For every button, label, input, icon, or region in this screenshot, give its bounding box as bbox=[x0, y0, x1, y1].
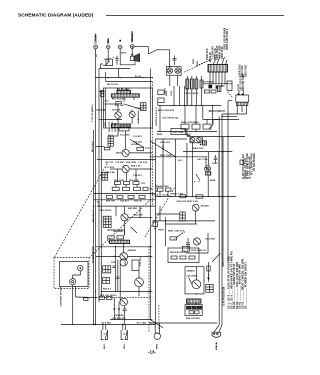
wire bus y193.6 bbox=[94, 193, 156, 195]
resistor R23 bbox=[104, 147, 110, 150]
junction Q6 bbox=[114, 256, 115, 257]
wire in output block bbox=[189, 278, 193, 285]
parts chain right of output block bbox=[208, 262, 210, 282]
resistor R15 bbox=[116, 102, 122, 104]
wire v208.7 bbox=[208, 152, 210, 166]
wire jack leads bbox=[154, 323, 156, 334]
capacitor C610 bbox=[218, 86, 221, 92]
dashed diagonal to motor bbox=[55, 162, 109, 257]
resistor row E bbox=[99, 297, 105, 300]
svg-text:R58 C47 R59: R58 C47 R59 bbox=[186, 317, 201, 320]
capacitor C42 bbox=[123, 306, 127, 316]
osc caps bbox=[214, 155, 217, 163]
svg-text:S1-1 (W): S1-1 (W) bbox=[137, 323, 146, 325]
terminal J2 bbox=[106, 45, 110, 49]
small part near motor bbox=[84, 298, 89, 301]
label row y160 bbox=[106, 162, 149, 164]
svg-text:REC/PB SW S1-2: REC/PB SW S1-2 bbox=[170, 252, 189, 254]
box row mid bbox=[181, 124, 189, 129]
wire motor wiring bbox=[73, 271, 81, 279]
right rail x155.5 bbox=[155, 139, 157, 325]
jack box bbox=[190, 137, 203, 143]
box EQ2 bbox=[171, 129, 186, 135]
wire J4 lead bbox=[131, 47, 133, 49]
junction dots extra bbox=[108, 77, 109, 78]
wire q6 top bbox=[123, 244, 125, 253]
diode D12 bbox=[118, 308, 121, 313]
svg-text:REC 60mV: REC 60mV bbox=[93, 210, 95, 222]
dashed vertical x149.5 low bbox=[148, 246, 150, 333]
label col right of IC bbox=[241, 74, 246, 91]
svg-text:S1-06: S1-06 bbox=[162, 195, 169, 197]
IC U601 bbox=[208, 65, 228, 73]
svg-text:R22 56K: R22 56K bbox=[115, 122, 117, 131]
mid extra wires bbox=[173, 86, 175, 106]
svg-text:R616 C616 472: R616 C616 472 bbox=[158, 109, 175, 112]
connector grid CN4 bbox=[103, 216, 111, 227]
svg-text:C613: C613 bbox=[171, 90, 173, 96]
svg-text:C604 473: C604 473 bbox=[211, 46, 214, 57]
transformer T601 bbox=[236, 95, 249, 105]
wire bus y146.5 bbox=[96, 146, 105, 148]
osc coil box bbox=[206, 172, 211, 175]
label cols right of IC upper bbox=[240, 63, 248, 77]
governor G1 bbox=[70, 279, 76, 285]
svg-text:S2-1: S2-1 bbox=[178, 160, 184, 162]
svg-text:R604 1K: R604 1K bbox=[209, 52, 212, 62]
lamp box bbox=[166, 67, 181, 76]
wire block base bbox=[104, 119, 122, 121]
svg-text:UM-1: UM-1 bbox=[104, 343, 106, 349]
switch S2-2 bbox=[106, 61, 110, 65]
svg-text:2SC1383: 2SC1383 bbox=[205, 239, 215, 241]
diagonal wire Q1-Q2 bbox=[124, 104, 142, 110]
svg-text:OSC COIL: OSC COIL bbox=[197, 159, 209, 161]
transistor Q10 bbox=[192, 280, 201, 289]
wire bus y139 bbox=[156, 138, 187, 140]
svg-text:2SC458: 2SC458 bbox=[112, 109, 121, 112]
resistor comb RN4 bbox=[110, 240, 130, 243]
svg-text:PB 0.5mV: PB 0.5mV bbox=[92, 141, 94, 152]
resistor comb RN2 bbox=[111, 94, 139, 97]
wire J1 lead / left rail bbox=[95, 49, 97, 325]
resistor comb RN1 bbox=[117, 90, 130, 93]
transistor Q4 bbox=[122, 165, 129, 172]
capacitor CS1 bbox=[113, 266, 116, 267]
junction motor bus bbox=[72, 324, 73, 325]
wire rail stub 1 bbox=[99, 91, 105, 93]
transistor Q6 bbox=[120, 253, 128, 261]
svg-text:R607 2.2K 1/4W S: R607 2.2K 1/4W S bbox=[226, 28, 229, 49]
svg-text:T601: T601 bbox=[186, 134, 192, 136]
svg-text:2SB324: 2SB324 bbox=[128, 249, 137, 252]
svg-text:C13 473: C13 473 bbox=[133, 135, 142, 138]
resistor row B bbox=[112, 187, 119, 190]
bus y199.8 bbox=[94, 199, 156, 201]
svg-text:S3 ..................... POWER: S3 ..................... POWER SW (2P2T) bbox=[243, 262, 247, 309]
wire verticals sec5 bbox=[115, 246, 117, 292]
svg-text:2SC945: 2SC945 bbox=[201, 205, 210, 208]
svg-text:C33 100: C33 100 bbox=[140, 257, 142, 266]
jack circle B bbox=[197, 138, 202, 143]
resistor grid RG2 bbox=[103, 278, 110, 284]
capacitor C1 (+ marks) bbox=[113, 56, 119, 65]
wire corner bbox=[101, 64, 104, 69]
svg-text:R26 6.8K: R26 6.8K bbox=[105, 172, 115, 174]
resistor RB2 bbox=[180, 195, 186, 198]
resistor comb RN3 bbox=[111, 124, 130, 127]
wire bottom v1 bbox=[113, 298, 115, 308]
wire bias top bbox=[187, 128, 191, 136]
IC pins bbox=[209, 72, 211, 84]
wire rail x223 bbox=[222, 137, 224, 267]
transistor Q6b bbox=[120, 259, 127, 266]
svg-text:MTG: MTG bbox=[121, 53, 126, 55]
connector grid CN3 bbox=[102, 172, 108, 180]
wire h y233 bbox=[166, 223, 197, 225]
wire h y214 bbox=[156, 213, 180, 215]
svg-text:C15 30P: C15 30P bbox=[115, 162, 124, 164]
wire Q4 left bbox=[110, 168, 122, 170]
capacitor CM5 bbox=[186, 238, 190, 250]
capacitor CE1 bbox=[186, 79, 189, 89]
diagonal wire sec2 bbox=[130, 140, 144, 148]
label mark J4 bbox=[132, 34, 133, 42]
wire Q10 up bbox=[195, 267, 197, 280]
svg-text:R601: R601 bbox=[193, 58, 195, 64]
svg-text:B: 3.2V: B: 3.2V bbox=[156, 184, 158, 192]
resistor row C bbox=[107, 195, 113, 198]
transistor Q1 bbox=[115, 112, 122, 119]
wire row3 v2 bbox=[125, 173, 127, 182]
wire mid v186 bbox=[186, 143, 188, 197]
terminal J1 bbox=[94, 45, 98, 49]
wire rail stub 3 bbox=[99, 119, 104, 121]
output block outline bbox=[185, 267, 204, 294]
wire bus y119.5 bbox=[203, 119, 239, 121]
svg-text:B+ 6V: B+ 6V bbox=[135, 76, 142, 78]
resistor RB1 bbox=[196, 195, 203, 198]
connector grid CN0 bbox=[101, 90, 104, 96]
svg-text:R619 C618 R620: R619 C618 R620 bbox=[181, 122, 199, 124]
dashed bus y297.5 bbox=[96, 297, 152, 299]
wire secondary to cord bbox=[222, 113, 247, 115]
battery holder B2 bbox=[121, 325, 127, 340]
svg-text:C630 473 R633 2.2K: C630 473 R633 2.2K bbox=[176, 200, 198, 203]
svg-text:R621: R621 bbox=[157, 134, 163, 136]
svg-text:S.W POSITION: S.W POSITION bbox=[222, 287, 226, 306]
svg-text:R28 1.2K: R28 1.2K bbox=[131, 166, 141, 168]
wire sec5 h246 bbox=[96, 246, 152, 248]
motor box inner bbox=[60, 262, 89, 287]
label row A bbox=[114, 179, 146, 185]
junction dots bus193 bbox=[101, 193, 102, 194]
wire h y221 bbox=[152, 220, 215, 222]
transformer leads bbox=[236, 105, 238, 114]
wire J4 to S1 bbox=[134, 46, 148, 48]
junction dots IC bbox=[212, 83, 213, 84]
wire sec2 v1 bbox=[117, 127, 119, 136]
svg-text:R18 120K: R18 120K bbox=[126, 162, 137, 164]
wire bus y319.6 bbox=[110, 319, 152, 321]
bus dots bottom bbox=[93, 324, 94, 325]
speaker SP bbox=[130, 48, 139, 61]
wire h y253 bbox=[186, 252, 208, 254]
label mark J2 bbox=[108, 38, 109, 43]
cap bank verticals bbox=[179, 86, 181, 106]
dashed leader lamp to labels bbox=[184, 57, 215, 72]
connector grid CN2 bbox=[108, 136, 113, 146]
transistor Q2 bbox=[129, 111, 135, 117]
wire lamps down bbox=[169, 75, 171, 86]
wire Q7 bbox=[138, 287, 140, 296]
wire rail4 bbox=[100, 90, 102, 296]
resistor RM5 bbox=[170, 237, 177, 240]
amp block outline bbox=[104, 88, 153, 128]
wire rail x228 bbox=[227, 101, 229, 262]
wire QM1 bbox=[195, 211, 197, 224]
lamp PL2 bbox=[175, 68, 180, 73]
dashed v bottom bbox=[158, 305, 160, 330]
svg-text:SCHEMATIC DIAGRAM (AUDED): SCHEMATIC DIAGRAM (AUDED) bbox=[18, 12, 94, 18]
resistor RM4 bbox=[211, 90, 216, 93]
svg-text:R41 56K: R41 56K bbox=[128, 207, 137, 210]
dashed diagonal right bbox=[145, 187, 175, 237]
switch box bbox=[106, 59, 113, 66]
junction dots rails bbox=[222, 151, 223, 152]
wire Q3 right bbox=[129, 152, 152, 154]
svg-text:C16 3/10: C16 3/10 bbox=[138, 162, 148, 164]
svg-text:UM-1: UM-1 bbox=[124, 343, 126, 349]
label J3 bbox=[119, 40, 121, 42]
resistor box M2 bbox=[158, 98, 164, 103]
wire cap bank leads bbox=[186, 76, 188, 79]
svg-text:R53 4.7: R53 4.7 bbox=[103, 288, 112, 291]
capacitor C2 bbox=[173, 56, 177, 66]
svg-text:R610 5.6K: R610 5.6K bbox=[242, 65, 244, 77]
svg-text:C12: C12 bbox=[105, 101, 110, 103]
wire L under speaker bbox=[120, 54, 135, 65]
wire bus y156.8 bbox=[150, 156, 207, 158]
svg-text:C19 473: C19 473 bbox=[133, 174, 142, 177]
svg-text:C17 47/6: C17 47/6 bbox=[105, 166, 115, 169]
wire Q4 right bbox=[129, 168, 152, 170]
svg-text:R625 1.5K: R625 1.5K bbox=[172, 193, 183, 195]
terminal J4 bbox=[130, 45, 134, 49]
wire bus y81.5 bbox=[106, 72, 153, 82]
switch S1-1 bbox=[148, 49, 158, 54]
wire mid v176 bbox=[175, 139, 177, 197]
svg-text:C28 100/10: C28 100/10 bbox=[100, 210, 113, 212]
wire Q3 left bbox=[117, 152, 122, 154]
svg-text:R32 4.7K: R32 4.7K bbox=[129, 179, 139, 182]
AC plug bbox=[212, 332, 221, 337]
capacitor C33 box bbox=[132, 260, 139, 271]
wire bus y159.6 bbox=[97, 159, 156, 161]
svg-text:C11 10/10: C11 10/10 bbox=[112, 120, 114, 131]
wire J2 lead bbox=[107, 49, 109, 62]
svg-text:BIAS OSC: BIAS OSC bbox=[193, 147, 204, 150]
svg-text:T: DC 6V (BATT.): T: DC 6V (BATT.) bbox=[91, 104, 94, 122]
svg-text:OSC T602: OSC T602 bbox=[173, 132, 184, 134]
capacitor CE2 bbox=[190, 79, 193, 89]
lamp PL1 bbox=[167, 68, 172, 73]
diode D601 bbox=[220, 85, 225, 88]
small box on rail bbox=[153, 222, 158, 227]
wire v Q5 down bbox=[124, 221, 126, 235]
transistor Q3 bbox=[122, 149, 129, 156]
dashed diagonal 2 bbox=[89, 200, 150, 258]
switch S1-3 arm bbox=[131, 227, 137, 233]
wire Q6 right bbox=[128, 255, 153, 257]
diode on pin wire bbox=[209, 85, 212, 88]
bus dots y196 bbox=[171, 196, 172, 197]
wire osc drop bbox=[205, 157, 207, 166]
svg-text:R631 C631 473: R631 C631 473 bbox=[168, 230, 185, 233]
comb ticks bbox=[117, 88, 119, 90]
resistor grid RG1 bbox=[103, 266, 111, 273]
grid GM1 bbox=[180, 212, 185, 221]
svg-text:S1-05: S1-05 bbox=[152, 195, 159, 197]
wire bus y68.5 bbox=[99, 68, 130, 70]
resistor row D bbox=[108, 236, 115, 239]
wire diagonal mid bbox=[150, 141, 175, 157]
wire v osc down bbox=[207, 175, 209, 196]
wire v118.7 bbox=[118, 69, 120, 78]
right text block bbox=[242, 152, 256, 179]
svg-text:C626 222: C626 222 bbox=[160, 142, 171, 144]
switch S2-1 arm bbox=[196, 174, 200, 181]
wire bus y291.6 bbox=[101, 291, 152, 293]
head box rows bbox=[187, 306, 191, 309]
battery holder B1 bbox=[101, 325, 107, 340]
svg-text:TO RADIO: TO RADIO bbox=[203, 81, 214, 84]
right rail x150.3 bbox=[149, 69, 151, 320]
mid row boxes bbox=[158, 188, 164, 191]
switch S low bbox=[150, 320, 163, 328]
switch S2 arm bbox=[176, 233, 183, 239]
svg-text:TO MOTOR SW: TO MOTOR SW bbox=[93, 246, 95, 263]
wire v downmid bbox=[207, 233, 209, 253]
motor dashed box bbox=[54, 258, 89, 289]
wire sec4 h bbox=[107, 229, 125, 231]
svg-text:C35: C35 bbox=[111, 262, 116, 264]
box bottom mid bbox=[182, 246, 189, 251]
label row C bbox=[106, 200, 142, 203]
L wire bbox=[209, 120, 213, 129]
resistor RM3 bbox=[204, 90, 209, 93]
junction dots bus bbox=[142, 77, 143, 78]
svg-text:C21: C21 bbox=[141, 183, 146, 185]
wire v165 bbox=[165, 217, 167, 246]
svg-text:PT-601: PT-601 bbox=[238, 83, 240, 91]
svg-text:R628: R628 bbox=[210, 180, 216, 182]
wire rail3 bbox=[98, 69, 100, 303]
label cluster top right bbox=[211, 27, 229, 60]
connector grid CN5 bbox=[206, 284, 213, 292]
svg-text:R5 C5 220: R5 C5 220 bbox=[107, 84, 119, 86]
wire bus y206 bbox=[97, 205, 156, 207]
diode D11 bbox=[113, 308, 116, 313]
svg-text:C617 R618 222: C617 R618 222 bbox=[162, 118, 179, 120]
wire sec4 v1 bbox=[115, 206, 117, 216]
wire q leads down bbox=[117, 118, 119, 124]
bus y111 bbox=[209, 110, 226, 112]
wire bus y323 bbox=[150, 322, 217, 324]
wire row3 link bbox=[115, 185, 117, 188]
dashed leader transformer bbox=[228, 92, 233, 97]
transistor QM2 bbox=[193, 238, 200, 245]
svg-text:AT NO SIGNAL: AT NO SIGNAL bbox=[253, 152, 256, 171]
resistor R24 bbox=[137, 147, 144, 150]
power cord bbox=[218, 117, 220, 326]
dashed leader 2 bbox=[196, 60, 210, 66]
terminal J3 bbox=[118, 45, 122, 49]
svg-text:C625: C625 bbox=[212, 163, 218, 165]
leader lines from labels bbox=[212, 60, 216, 67]
svg-text:2SB405: 2SB405 bbox=[187, 270, 196, 273]
dashed vertical x152.3 bbox=[151, 82, 153, 206]
svg-text:R630: R630 bbox=[158, 230, 164, 232]
capacitor CE3 bbox=[195, 79, 198, 89]
wire rail2 bbox=[93, 130, 95, 325]
svg-text:R36 1K: R36 1K bbox=[134, 201, 142, 203]
svg-text:R52 C41 100/10: R52 C41 100/10 bbox=[100, 294, 117, 297]
svg-text:R31 150K: R31 150K bbox=[114, 180, 125, 182]
svg-text:C632 R635 1K: C632 R635 1K bbox=[191, 250, 206, 252]
wire bus y105.5 bbox=[158, 105, 222, 107]
box REC SW bbox=[119, 126, 129, 131]
svg-text:R614: R614 bbox=[165, 90, 168, 96]
junction dots mid bbox=[190, 105, 191, 106]
transistor Q7 out bbox=[135, 278, 144, 287]
resistor row F bbox=[171, 256, 177, 259]
head box bbox=[185, 305, 202, 316]
transistor QM1 bbox=[192, 204, 199, 211]
resistor row A bbox=[114, 182, 120, 185]
svg-text:-13-: -13- bbox=[148, 350, 156, 355]
svg-text:C49 220/6: C49 220/6 bbox=[187, 275, 198, 278]
wire to lamp bbox=[158, 50, 170, 57]
wire sw to rail bbox=[103, 64, 105, 66]
wire bus y151.6 bbox=[183, 151, 232, 153]
IC pin dots bbox=[215, 83, 216, 84]
capacitor CS2 bbox=[116, 277, 119, 278]
transistor Q5 bbox=[121, 214, 128, 221]
wire bus y77.6 bbox=[96, 77, 153, 79]
wire x223 to notes bbox=[222, 262, 224, 267]
resistor box M1 bbox=[158, 90, 164, 95]
svg-text:R15 10K: R15 10K bbox=[115, 105, 124, 107]
svg-text:D602 V06C: D602 V06C bbox=[246, 64, 248, 77]
junction dots row bbox=[101, 159, 102, 160]
wire Q6 left bbox=[96, 255, 120, 257]
svg-text:OUTPUT 2.5V P-P: OUTPUT 2.5V P-P bbox=[156, 106, 158, 126]
transistor Q8 bbox=[120, 298, 128, 306]
capacitor C611 bbox=[227, 81, 232, 91]
wire rail stub 2 bbox=[96, 109, 105, 111]
transformer top connections bbox=[237, 93, 240, 95]
svg-text:REM: REM bbox=[157, 344, 159, 349]
hatch box right of jacks bbox=[202, 141, 206, 145]
junction dots bus196 bbox=[159, 196, 160, 197]
wire row3 v3 bbox=[135, 169, 137, 182]
wire mid v163 bbox=[162, 139, 164, 188]
wire sec4 v2 bbox=[139, 206, 141, 217]
title rule bbox=[106, 15, 284, 17]
wire lamp top bbox=[169, 57, 171, 67]
svg-text:CAPSTAN MOTOR: CAPSTAN MOTOR bbox=[60, 286, 63, 306]
